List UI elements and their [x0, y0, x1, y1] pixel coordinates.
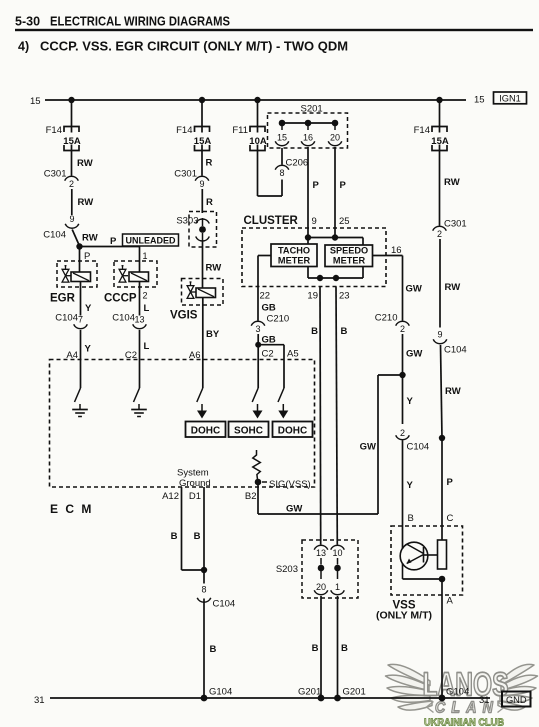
- fuse F14 15A: [64, 127, 79, 133]
- wire VSS B to emitter bottom: [402, 563, 404, 579]
- svg-text:EGR: EGR: [50, 293, 76, 305]
- junction on bus 15 col2: [199, 97, 205, 103]
- svg-text:S203: S203: [276, 564, 298, 575]
- svg-text:F14: F14: [176, 125, 192, 136]
- wire S201-20 to cluster pin 25: [334, 147, 336, 238]
- svg-text:R: R: [206, 158, 213, 169]
- svg-text:C104: C104: [43, 230, 66, 241]
- ground symbol C2: [138, 404, 140, 410]
- svg-text:2: 2: [400, 324, 405, 334]
- svg-text:DOHC: DOHC: [191, 426, 220, 437]
- svg-text:10: 10: [332, 548, 342, 558]
- wire junction down to C104-2: [402, 375, 404, 424]
- stub to tachometer: [307, 238, 309, 245]
- svg-text:SPEEDO: SPEEDO: [330, 246, 368, 256]
- svg-text:15: 15: [474, 95, 485, 106]
- svg-text:5-30: 5-30: [15, 15, 40, 29]
- svg-text:RW: RW: [206, 263, 222, 274]
- svg-text:13: 13: [316, 548, 326, 558]
- svg-text:C301: C301: [44, 169, 67, 180]
- svg-text:F14: F14: [414, 125, 430, 136]
- S203 pin 1: [337, 568, 339, 579]
- svg-text:9: 9: [437, 330, 442, 340]
- wire EGR to C104-7: [80, 287, 82, 316]
- svg-text:10A: 10A: [249, 136, 267, 147]
- node G201 left: [318, 695, 325, 702]
- S203 node 13: [318, 565, 325, 572]
- ground symbol A4: [79, 404, 81, 410]
- svg-text:METER: METER: [278, 256, 311, 266]
- svg-text:Y: Y: [85, 344, 92, 355]
- svg-text:G104: G104: [446, 687, 469, 698]
- watermark club logo: [386, 664, 538, 727]
- svg-text:CCCP: CCCP: [104, 293, 137, 305]
- svg-text:13: 13: [134, 315, 144, 325]
- wire col3 corner to C206: [258, 195, 283, 197]
- splice node on col4: [439, 435, 445, 441]
- svg-text:P: P: [313, 180, 320, 191]
- wire col3 bus to fuse: [257, 100, 259, 127]
- wire col4 C104 down: [441, 345, 443, 438]
- DOHC box 1: [186, 422, 226, 438]
- wire col4 to VSS pin C: [441, 438, 443, 540]
- svg-text:ELECTRICAL WIRING DIAGRAMS: ELECTRICAL WIRING DIAGRAMS: [50, 15, 230, 29]
- solenoid CCCP: [114, 261, 157, 287]
- node B merge: [201, 567, 207, 573]
- bus 31 (ground): [50, 697, 490, 699]
- wire pin23 to S203-10: [336, 287, 337, 545]
- svg-text:2: 2: [69, 179, 74, 189]
- S201 node 15: [279, 120, 286, 127]
- cluster node 23: [333, 275, 339, 281]
- svg-text:7: 7: [78, 315, 83, 325]
- svg-text:A12: A12: [162, 491, 179, 502]
- svg-text:A: A: [447, 596, 454, 607]
- tachometer U-tacho: [271, 244, 317, 267]
- svg-text:G104: G104: [209, 687, 232, 698]
- wire S203-1 to G201: [337, 596, 339, 698]
- svg-text:CLUSTER: CLUSTER: [244, 215, 299, 227]
- svg-text:25: 25: [339, 216, 350, 227]
- svg-text:P: P: [447, 477, 454, 488]
- svg-text:CCCP. VSS. EGR CIRCUIT (ONLY M: CCCP. VSS. EGR CIRCUIT (ONLY M/T) - TWO …: [40, 40, 348, 54]
- fuse F11 10A: [250, 127, 265, 133]
- svg-text:SIG(VSS): SIG(VSS): [269, 479, 311, 490]
- wire node to ECM pin A5: [258, 344, 284, 346]
- svg-text:9: 9: [312, 216, 317, 227]
- node VSS signal: [399, 372, 405, 378]
- resistor SIG(VSS) pullup: [253, 450, 260, 482]
- wire col1 fuse to C301: [71, 151, 73, 176]
- svg-text:RW: RW: [78, 197, 94, 208]
- svg-text:C104: C104: [55, 313, 78, 324]
- connector C206 pin 8: [275, 165, 289, 169]
- transistor pickup in VSS: [400, 542, 428, 570]
- node SIG(VSS): [255, 479, 262, 486]
- cluster internal bottom bus: [308, 277, 363, 279]
- svg-text:C210: C210: [267, 314, 290, 325]
- connector C104 pin 13: [133, 324, 147, 328]
- junction on bus 15 col4: [436, 97, 442, 103]
- switch contact in ECM (A5): [278, 388, 284, 402]
- svg-text:B: B: [194, 531, 201, 542]
- svg-text:DOHC: DOHC: [278, 426, 307, 437]
- wire A12 down: [181, 487, 183, 570]
- wire col4 fuse to C301: [439, 151, 441, 226]
- svg-text:C104: C104: [112, 313, 135, 324]
- svg-text:G201: G201: [343, 687, 366, 698]
- wire VSS out: [441, 579, 443, 698]
- wire C104-13 to ECM pin C2: [139, 330, 141, 388]
- wire col4 C301 to C104: [439, 239, 441, 328]
- svg-text:B: B: [408, 513, 414, 524]
- wire pin19 to S203-13: [319, 287, 322, 545]
- svg-text:RW: RW: [82, 233, 98, 244]
- wire pin16 down (GW): [402, 256, 404, 321]
- wire B2 down: [257, 482, 259, 514]
- S201 pin 20: [334, 123, 336, 130]
- svg-text:(ONLY M/T): (ONLY M/T): [376, 610, 432, 622]
- svg-text:SOHC: SOHC: [234, 426, 263, 437]
- svg-text:GW: GW: [286, 504, 302, 515]
- node VSS output: [439, 576, 446, 583]
- svg-text:C104: C104: [213, 599, 236, 610]
- svg-text:P: P: [110, 236, 117, 247]
- svg-text:IGN1: IGN1: [499, 94, 521, 104]
- svg-text:Y: Y: [407, 480, 414, 491]
- svg-text:R: R: [206, 197, 213, 208]
- connector C104 pin 9: [65, 224, 79, 228]
- svg-text:2: 2: [400, 428, 405, 438]
- speedo right wire to pin 16: [373, 255, 403, 257]
- svg-text:GND: GND: [506, 695, 527, 705]
- svg-text:Y: Y: [407, 396, 414, 407]
- arrow to DOHC ground: [201, 404, 203, 412]
- wire col4 bus to fuse: [439, 100, 441, 127]
- cluster dashed box: [242, 228, 386, 287]
- svg-text:D1: D1: [189, 491, 201, 502]
- S201 pin 16: [307, 123, 309, 130]
- svg-text:2: 2: [143, 291, 148, 301]
- S203 pin 13: [314, 545, 328, 549]
- svg-text:G201: G201: [298, 687, 321, 698]
- S203 pin 10: [331, 545, 345, 549]
- S201 pin 15: [281, 123, 283, 130]
- cluster node 25: [332, 234, 338, 240]
- svg-text:23: 23: [339, 291, 350, 302]
- SOHC box: [229, 422, 269, 438]
- wire col3 fuse down: [257, 151, 259, 197]
- junction on bus 15 col3: [254, 97, 260, 103]
- VSS dashed box: [391, 526, 463, 595]
- switch contact in ECM (C2): [134, 388, 140, 402]
- svg-text:B: B: [341, 326, 348, 337]
- wire junction to EGR solenoid: [79, 247, 81, 273]
- wire junction to CCCP drop: [80, 246, 140, 248]
- svg-text:L: L: [144, 341, 150, 352]
- node G104 right: [439, 695, 446, 702]
- svg-text:C206: C206: [286, 158, 309, 169]
- svg-text:UNLEADED: UNLEADED: [125, 236, 176, 246]
- svg-text:BY: BY: [206, 329, 220, 340]
- svg-text:VGIS: VGIS: [170, 310, 198, 322]
- wire C104-2 to VSS pin B: [402, 441, 404, 550]
- svg-text:P: P: [340, 180, 347, 191]
- svg-text:1: 1: [335, 582, 340, 592]
- svg-text:C104: C104: [444, 345, 467, 356]
- svg-text:UKRAINIAN CLUB: UKRAINIAN CLUB: [424, 717, 504, 727]
- wire S201-16 to cluster pin 9: [307, 147, 309, 238]
- wire C210-2 to junction: [402, 334, 404, 375]
- svg-text:4): 4): [18, 40, 29, 54]
- svg-text:GW: GW: [406, 284, 422, 295]
- svg-text:C301: C301: [444, 219, 467, 230]
- svg-text:9: 9: [69, 214, 74, 224]
- wire node to ECM pin C2: [257, 345, 259, 388]
- S201 node 20: [332, 120, 339, 127]
- svg-text:B2: B2: [245, 491, 257, 502]
- S203 pin 20: [320, 568, 322, 579]
- svg-text:20: 20: [316, 582, 326, 592]
- wire C104-8 to G104: [203, 599, 205, 699]
- svg-text:RW: RW: [445, 282, 461, 293]
- header rule: [15, 29, 533, 31]
- switch contact in ECM (C2 cluster): [252, 388, 258, 402]
- svg-text:RW: RW: [444, 177, 460, 188]
- svg-text:31: 31: [479, 695, 490, 706]
- svg-text:20: 20: [330, 133, 340, 143]
- GND box: [502, 692, 531, 707]
- wire col1 C301 to C104: [71, 189, 73, 215]
- wire CCCP to C104-13: [139, 287, 141, 316]
- svg-text:22: 22: [260, 291, 271, 302]
- svg-text:RW: RW: [77, 158, 93, 169]
- speedometer U-speedo: [325, 245, 373, 267]
- wire GW to ECM B2: [258, 513, 378, 515]
- svg-text:15: 15: [30, 96, 41, 107]
- svg-text:B: B: [341, 643, 348, 654]
- bus 15 (ignition feed): [45, 99, 466, 101]
- svg-text:8: 8: [279, 168, 284, 178]
- wire VGIS to ECM pin A6: [202, 305, 204, 388]
- svg-text:C301: C301: [174, 169, 197, 180]
- tacho left wire to pin 22: [258, 255, 271, 257]
- wire A12 merge: [182, 569, 205, 571]
- svg-text:15A: 15A: [431, 136, 449, 147]
- svg-text:15: 15: [277, 133, 287, 143]
- node GB split: [255, 342, 261, 348]
- svg-text:16: 16: [391, 245, 402, 256]
- svg-text:GW: GW: [406, 349, 422, 360]
- stub to speedometer: [362, 238, 364, 246]
- switch contact in ECM (A4): [75, 388, 81, 402]
- fuse F14 15A: [432, 127, 447, 133]
- node G201 right: [334, 695, 341, 702]
- svg-text:8: 8: [201, 585, 206, 595]
- node G104 left: [201, 695, 208, 702]
- S201 internal bus: [282, 122, 335, 124]
- wire col2 fuse to C301: [201, 151, 203, 176]
- svg-text:1: 1: [143, 251, 148, 261]
- svg-text:19: 19: [307, 291, 318, 302]
- wire pin22 to C210-3: [257, 287, 259, 321]
- S201 node 16: [305, 120, 312, 127]
- svg-text:9: 9: [199, 179, 204, 189]
- svg-text:TACHO: TACHO: [278, 246, 310, 256]
- IGN1 box: [494, 92, 527, 104]
- node P junction: [76, 243, 82, 249]
- UNLEADED box: [123, 234, 179, 246]
- svg-text:B: B: [312, 643, 319, 654]
- svg-text:B: B: [210, 644, 217, 655]
- arrow to DOHC ground 2: [282, 404, 284, 412]
- wire D1 down: [203, 487, 205, 584]
- svg-text:2: 2: [437, 229, 442, 239]
- sensor element (VSS): [438, 540, 447, 569]
- svg-text:Y: Y: [85, 303, 92, 314]
- svg-text:METER: METER: [333, 256, 366, 266]
- svg-text:System: System: [177, 468, 209, 479]
- connector C104 pin 7: [74, 324, 88, 328]
- svg-text:A5: A5: [287, 349, 299, 360]
- wire S203-20 to G201: [320, 596, 322, 698]
- svg-text:RW: RW: [445, 386, 461, 397]
- cluster node 9: [305, 234, 311, 240]
- svg-text:C: C: [447, 513, 454, 524]
- wire C210-3 to node: [257, 334, 259, 345]
- svg-text:16: 16: [303, 133, 313, 143]
- svg-text:C2: C2: [262, 349, 274, 360]
- switch contact in ECM (A6): [197, 388, 203, 402]
- S203 node 10: [334, 565, 341, 572]
- svg-text:31: 31: [34, 695, 45, 706]
- cluster node 19: [317, 275, 323, 281]
- arrow to SOHC ground: [257, 404, 259, 412]
- wire col1 C104 to junction: [72, 230, 79, 246]
- svg-text:E C M: E C M: [50, 502, 93, 516]
- solenoid EGR: [57, 261, 97, 287]
- svg-text:GW: GW: [360, 442, 376, 453]
- wire col2 C301 to S303: [201, 189, 203, 213]
- junction on bus 15 col1: [68, 97, 74, 103]
- cluster internal top bus: [308, 237, 363, 239]
- svg-text:15A: 15A: [63, 136, 81, 147]
- wire C104-7 to ECM pin A4: [80, 330, 82, 388]
- wire col2 bus to fuse: [201, 100, 203, 127]
- svg-text:3: 3: [255, 324, 260, 334]
- svg-text:F11: F11: [232, 125, 248, 136]
- svg-text:15A: 15A: [194, 136, 212, 147]
- wire S303 to VGIS: [202, 241, 204, 288]
- svg-text:B: B: [171, 531, 178, 542]
- ECM dashed box: [50, 360, 315, 488]
- svg-text:L: L: [144, 303, 150, 314]
- svg-text:C104: C104: [407, 442, 430, 453]
- wire GW branch left: [378, 374, 403, 376]
- solenoid VGIS: [182, 279, 224, 306]
- svg-text:GB: GB: [262, 303, 276, 314]
- svg-text:Ground: Ground: [179, 478, 211, 489]
- wire col1 bus to fuse: [71, 100, 73, 127]
- connector C104 pin 9 (right): [433, 339, 447, 343]
- svg-text:F14: F14: [46, 125, 62, 136]
- fuse F14 15A: [195, 127, 210, 133]
- DOHC box 2: [273, 422, 313, 438]
- svg-text:S303: S303: [176, 216, 198, 227]
- svg-text:C210: C210: [375, 313, 398, 324]
- svg-text:B: B: [311, 326, 318, 337]
